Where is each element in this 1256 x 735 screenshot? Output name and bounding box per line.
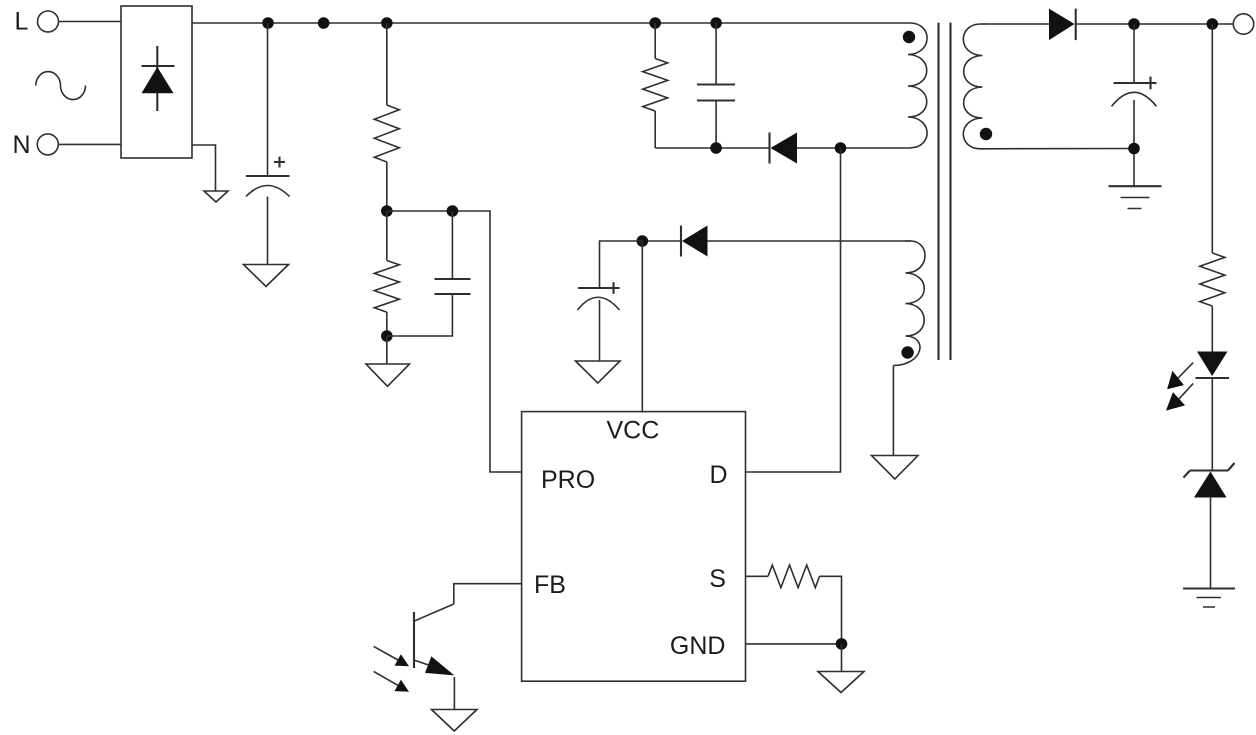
wire snubber bottom rail [655, 147, 769, 149]
LED D4 [1197, 352, 1228, 377]
wire VCC node to pin [641, 241, 643, 412]
ground (bulk cap) [244, 265, 289, 287]
terminal N [37, 134, 58, 155]
capacitor C4 plus [608, 282, 620, 294]
bridge rectifier BR1 diode [156, 46, 158, 111]
wire VCC node to cap [600, 241, 643, 288]
light arrow 1 [374, 646, 398, 660]
node output branch [1207, 18, 1219, 30]
node R1 top [381, 17, 393, 29]
terminal L [38, 11, 59, 32]
node snubber C bottom [710, 142, 722, 154]
node R2 bottom [381, 330, 393, 342]
svg-text:FB: FB [534, 571, 566, 599]
wire R5 to LED [1211, 306, 1213, 352]
wire FB pin [454, 584, 522, 604]
resistor R5 [1200, 253, 1225, 306]
diode D3 output [1049, 9, 1075, 40]
wire R4 to GND node [820, 576, 842, 644]
svg-text:D: D [710, 461, 728, 489]
wire snubber C top lead [715, 23, 717, 85]
wire output cap top lead [1133, 24, 1135, 83]
wire main HV rail [192, 22, 905, 24]
diode D2 aux [680, 226, 682, 257]
earth ground (zener) [1183, 587, 1235, 589]
wire C2 bottom lead [387, 294, 453, 336]
IC U1 box [522, 412, 746, 682]
secondary polarity dot [980, 128, 992, 140]
wire output rail [1076, 23, 1234, 25]
capacitor C2 [435, 279, 471, 294]
wire bridge minus to ground [192, 145, 216, 191]
node output cap top [1128, 18, 1140, 30]
wire C2 top lead [451, 211, 453, 279]
optocoupler U2 base bar [413, 612, 415, 668]
transformer T1 aux winding [893, 241, 925, 366]
transformer T1 primary winding [905, 23, 927, 148]
wire C4 bottom lead [599, 300, 601, 361]
capacitor C1 plus [274, 157, 285, 168]
svg-text:N: N [13, 131, 31, 159]
wire emitter down [453, 677, 455, 710]
node output cap bottom [1128, 143, 1140, 155]
wire R2 top lead [386, 211, 388, 261]
wire secondary bottom to output cap [983, 148, 1134, 150]
svg-text:VCC: VCC [607, 417, 660, 445]
node divider [381, 205, 393, 217]
resistor R4 [768, 565, 819, 588]
svg-text:S: S [709, 565, 726, 593]
optocoupler U2 emitter [415, 660, 431, 665]
wire GND node down [841, 644, 843, 672]
LED arrow 1 [1178, 363, 1193, 378]
wire R1 bottom lead [386, 162, 388, 211]
wire bulk cap bottom lead [267, 197, 269, 265]
wire N to bridge [58, 143, 121, 145]
resistor R3 snubber [643, 59, 668, 112]
wire output branch to resistor [1211, 24, 1213, 253]
wire D1 anode to primary bottom [797, 147, 911, 149]
ground (optocoupler) [432, 710, 478, 732]
transformer T1 core [939, 23, 951, 360]
aux polarity dot [901, 346, 913, 358]
light arrow 2 [374, 671, 398, 685]
ground (GND pin) [818, 672, 864, 693]
ground (divider) [366, 364, 410, 386]
LED arrow 2 [1179, 383, 1193, 399]
zener D5 [1184, 463, 1235, 478]
ground (aux winding) [872, 456, 919, 480]
wire to ground [386, 336, 388, 364]
wire D2 cathode to VCC node [642, 240, 681, 242]
primary polarity dot [903, 31, 915, 43]
node rail2 [318, 17, 330, 29]
optocoupler U2 collector [415, 604, 454, 621]
node C2 top [447, 205, 459, 217]
svg-text:GND: GND [670, 632, 726, 660]
wire S pin [746, 575, 769, 577]
capacitor C1 [246, 175, 290, 177]
wire snubber C bottom lead [715, 101, 717, 149]
wire aux top [708, 240, 911, 242]
wire zener to ground [1210, 498, 1212, 589]
wire LED to zener [1211, 378, 1213, 471]
wire snubber R bottom lead [654, 111, 656, 148]
wire secondary top to output diode [983, 23, 1049, 25]
svg-text:L: L [15, 8, 29, 36]
ground (VCC cap) [576, 361, 621, 383]
AC source sine [36, 72, 86, 100]
capacitor C4 [578, 287, 617, 289]
node VCC [637, 235, 649, 247]
node GND [836, 638, 848, 650]
bridge rectifier BR1 box [121, 6, 192, 158]
node D pin junction [835, 142, 847, 154]
node bulk [262, 17, 274, 29]
wire aux bottom to ground [892, 366, 894, 456]
wire output cap bottom lead [1133, 100, 1135, 186]
wire L to bridge [59, 21, 122, 23]
wire R2 bottom lead [386, 312, 388, 336]
wire D pin [746, 148, 841, 472]
node snubber R top [649, 17, 661, 29]
capacitor C3 snubber [697, 85, 735, 101]
wire GND pin [746, 643, 842, 645]
diode D1 snubber [768, 133, 770, 164]
node snubber C top [710, 17, 722, 29]
capacitor C5 [1114, 82, 1156, 84]
wire node to PRO [387, 211, 522, 472]
wire snubber R top lead [654, 23, 656, 59]
transformer T1 secondary winding [963, 24, 985, 149]
resistor R2 [374, 261, 399, 313]
earth ground (secondary) [1109, 185, 1162, 187]
ground (bridge) [204, 191, 228, 202]
wire R1 top lead [386, 23, 388, 105]
wire bulk cap top lead [267, 23, 269, 176]
capacitor C5 plus [1145, 77, 1157, 90]
terminal output [1233, 14, 1253, 34]
resistor R1 [374, 105, 399, 162]
svg-text:PRO: PRO [541, 466, 595, 494]
